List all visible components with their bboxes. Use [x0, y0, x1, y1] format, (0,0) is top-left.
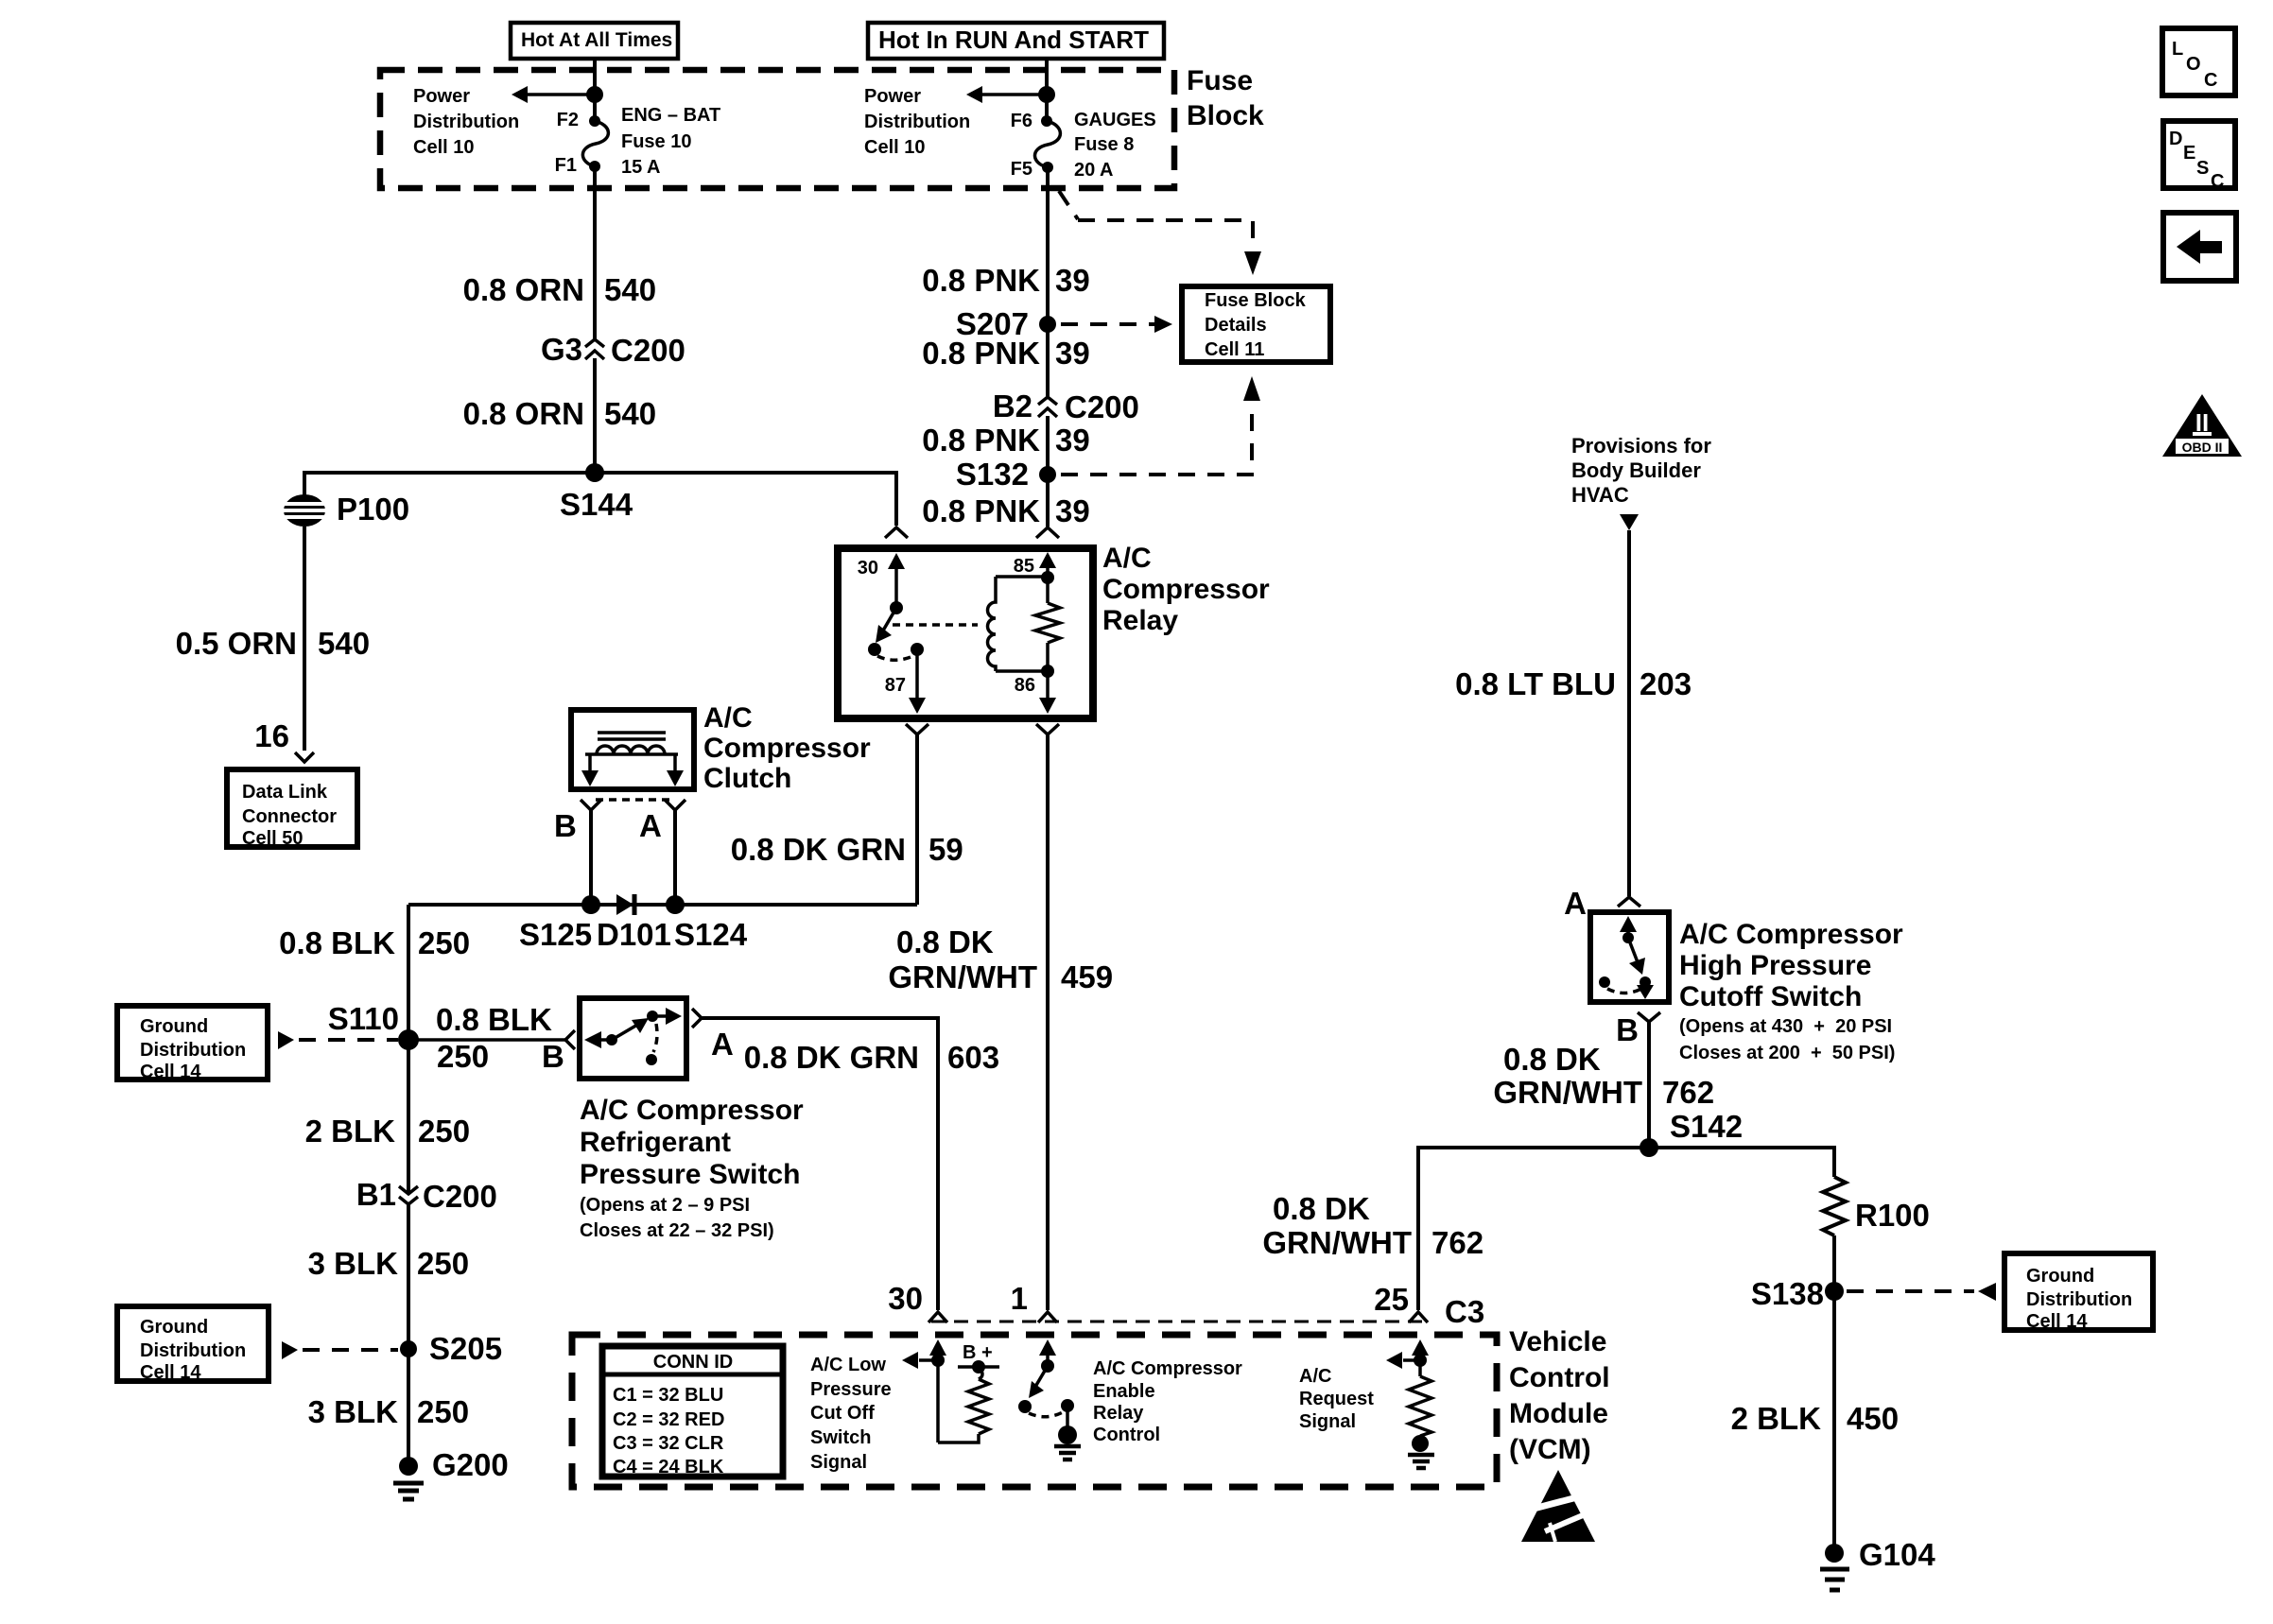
box Data Link Connector Cell 50 [227, 769, 357, 849]
svg-text:0.8 PNK: 0.8 PNK [922, 423, 1040, 458]
svg-text:Power: Power [864, 86, 921, 107]
svg-text:OBD II: OBD II [2182, 440, 2223, 455]
dashed path F5 to Fuse Block Details [1059, 191, 1261, 275]
svg-text:459: 459 [1061, 959, 1113, 994]
svg-text:Cell 14: Cell 14 [2026, 1311, 2088, 1332]
pin label A (pressure switch) [711, 1027, 734, 1062]
label 0.8 ORN 540 (upper) [463, 272, 656, 307]
svg-text:540: 540 [604, 396, 656, 431]
svg-text:85: 85 [1014, 556, 1034, 577]
relay coil top rail to pin 85 [996, 552, 1056, 584]
svg-text:Module: Module [1509, 1398, 1608, 1429]
svg-text:20 A: 20 A [1074, 160, 1114, 181]
connector B1 C200 (inline break, chevrons down) [356, 1177, 497, 1214]
VCM B+ pullup for pin 30 [938, 1342, 999, 1443]
label 3 BLK 250 (upper) [308, 1246, 469, 1281]
VCM dashed box [572, 1335, 1497, 1487]
VCM pin label 30 [888, 1281, 923, 1316]
VCM pin1 internal: enable relay driver [1018, 1339, 1074, 1429]
pin label A (clutch) [639, 808, 662, 843]
VCM pin30 internal: up arrow + left arrow [902, 1339, 946, 1443]
svg-text:0.5 ORN: 0.5 ORN [176, 626, 297, 661]
text Power Distribution Cell 10 (right) [864, 86, 970, 158]
svg-text:Closes at 22 – 32 PSI): Closes at 22 – 32 PSI) [580, 1220, 774, 1241]
node S132 [956, 457, 1056, 492]
svg-text:A/C Low: A/C Low [810, 1355, 886, 1375]
svg-text:Request: Request [1299, 1389, 1374, 1409]
relay coil bottom rail to pin 86 [996, 665, 1056, 714]
connector fork into relay pin 85 [1036, 527, 1059, 538]
pin label F6 [1011, 111, 1032, 131]
relay switch: pin30 arm with up arrow [888, 553, 905, 614]
svg-text:Fuse: Fuse [1187, 65, 1253, 96]
connector fork clutch pin A [665, 800, 685, 810]
svg-text:F1: F1 [555, 155, 577, 176]
svg-text:Hot In RUN And START: Hot In RUN And START [878, 26, 1149, 54]
fuse block dashed box [380, 70, 1174, 188]
dashed connector line C3 across VCM pins [931, 1321, 1423, 1323]
svg-text:GRN/WHT: GRN/WHT [888, 959, 1037, 994]
label 0.8 DK GRN 603 [744, 1040, 999, 1075]
relay U: A/C Compressor Relay box [838, 548, 1093, 718]
svg-text:F5: F5 [1011, 159, 1032, 180]
CONN ID table [602, 1346, 783, 1477]
svg-text:250: 250 [417, 1246, 469, 1281]
VCM label A/C Request Signal [1299, 1366, 1374, 1432]
svg-text:Cut Off: Cut Off [810, 1403, 875, 1424]
pressure switch box [580, 998, 686, 1079]
component name Vehicle Control Module (VCM) [1509, 1326, 1610, 1465]
svg-text:Fuse Block: Fuse Block [1205, 290, 1307, 311]
svg-text:0.8 ORN: 0.8 ORN [463, 396, 584, 431]
ground inside VCM (pin 1 driver) [1054, 1425, 1081, 1460]
component name "Fuse Block" [1187, 65, 1264, 131]
wire: S144 horizontal bus [304, 473, 896, 526]
wire: Hot At All Times down to F2 [593, 57, 597, 121]
DESC icon [2163, 121, 2235, 192]
wire: S138 down to G104 [1832, 1291, 1836, 1553]
svg-text:C: C [2211, 171, 2224, 192]
svg-text:F6: F6 [1011, 111, 1032, 131]
svg-text:540: 540 [604, 272, 656, 307]
svg-text:0.8 DK GRN: 0.8 DK GRN [744, 1040, 919, 1075]
svg-text:Switch: Switch [810, 1427, 871, 1448]
svg-text:B: B [542, 1039, 564, 1074]
svg-text:C200: C200 [423, 1179, 497, 1214]
svg-text:250: 250 [418, 925, 470, 960]
svg-text:S125: S125 [519, 917, 592, 952]
VCM pin25 internal: request signal [1386, 1339, 1431, 1436]
svg-text:A: A [711, 1027, 734, 1062]
label 0.8 DK GRN/WHT 762 (lower) [1262, 1191, 1484, 1260]
svg-text:0.8 LT BLU: 0.8 LT BLU [1455, 666, 1616, 701]
connector fork into relay pin 30 [885, 527, 908, 538]
connector fork at DLC pin 16 [295, 752, 314, 762]
svg-text:S110: S110 [328, 1001, 399, 1036]
svg-text:Signal: Signal [810, 1452, 867, 1473]
svg-text:C3: C3 [1445, 1294, 1484, 1329]
ground G200 [393, 1447, 509, 1499]
wire: S110 to pressure switch pin B [408, 1038, 565, 1042]
svg-text:Cell 14: Cell 14 [140, 1362, 201, 1383]
svg-text:HVAC: HVAC [1571, 483, 1629, 507]
svg-text:GAUGES: GAUGES [1074, 110, 1156, 130]
clutch box [571, 710, 694, 789]
back arrow icon [2163, 213, 2236, 281]
svg-text:Pressure Switch: Pressure Switch [580, 1159, 800, 1190]
wire: R100 down to S138 [1832, 1235, 1836, 1291]
box Fuse Block Details Cell 11 [1182, 286, 1330, 362]
svg-text:2 BLK: 2 BLK [1731, 1401, 1822, 1436]
label 0.8 PNK 39 (row 3) [922, 423, 1089, 458]
svg-text:S124: S124 [674, 917, 748, 952]
clutch feed arrows [581, 754, 684, 786]
node: junction dot right feed [1038, 86, 1055, 103]
svg-text:S: S [2196, 158, 2209, 179]
svg-text:S144: S144 [560, 487, 633, 522]
text ENG-BAT Fuse 10 15 A [621, 105, 720, 178]
svg-text:A: A [639, 808, 662, 843]
svg-text:Clutch: Clutch [703, 763, 791, 794]
svg-text:C: C [2204, 70, 2217, 91]
svg-text:0.8 PNK: 0.8 PNK [922, 493, 1040, 528]
svg-text:A/C Compressor: A/C Compressor [580, 1095, 804, 1126]
svg-text:A: A [1564, 886, 1587, 921]
svg-text:Details: Details [1205, 315, 1267, 336]
svg-text:450: 450 [1847, 1401, 1899, 1436]
svg-text:F2: F2 [557, 110, 579, 130]
diode D101 [616, 894, 634, 915]
svg-text:Fuse 8: Fuse 8 [1074, 134, 1134, 155]
label 2 BLK 450 [1731, 1401, 1899, 1436]
node S142 [1640, 1109, 1743, 1157]
label 0.8 PNK 39 (row 4) [922, 493, 1089, 528]
label 2 BLK 250 [305, 1114, 470, 1149]
pin 16 label [254, 718, 289, 753]
svg-text:Cutoff Switch: Cutoff Switch [1679, 981, 1862, 1012]
svg-text:C200: C200 [611, 333, 685, 368]
svg-text:0.8 DK: 0.8 DK [1273, 1191, 1370, 1226]
box Ground Distribution Cell 14 (upper) [117, 1006, 268, 1082]
svg-text:Ground: Ground [2026, 1266, 2094, 1287]
svg-text:S132: S132 [956, 457, 1029, 492]
svg-text:2 BLK: 2 BLK [305, 1114, 396, 1149]
wire: G3 break down to S144 [593, 358, 597, 473]
dashed arrow S110 to ground distribution [278, 1031, 398, 1049]
svg-text:Signal: Signal [1299, 1411, 1356, 1432]
relay pin label 87 [885, 675, 906, 696]
svg-text:G200: G200 [432, 1447, 509, 1482]
connector fork cutoff switch pin B [1638, 1012, 1660, 1022]
svg-text:Distribution: Distribution [413, 112, 519, 132]
svg-text:C2 = 32 RED: C2 = 32 RED [613, 1409, 724, 1430]
node S205 [400, 1331, 502, 1366]
svg-text:3 BLK: 3 BLK [308, 1394, 399, 1429]
svg-text:Connector: Connector [242, 806, 337, 827]
label 3 BLK 250 (lower) [308, 1394, 469, 1429]
dashed connector line between clutch pins [596, 798, 670, 802]
wire: S110 down to B1 break [407, 1040, 410, 1194]
pin label F5 [1011, 159, 1032, 180]
connector fork cutoff switch pin A [1618, 897, 1640, 907]
svg-text:Block: Block [1187, 100, 1264, 131]
svg-text:39: 39 [1055, 423, 1090, 458]
label 0.8 LT BLU 203 [1455, 666, 1692, 701]
svg-text:250: 250 [418, 1114, 470, 1149]
svg-text:Distribution: Distribution [140, 1040, 246, 1061]
svg-text:C1 = 32 BLU: C1 = 32 BLU [613, 1385, 723, 1406]
component name A/C Compressor Relay [1102, 543, 1270, 636]
component name A/C Compressor Clutch [703, 702, 871, 794]
text GAUGES Fuse 8 20 A [1074, 110, 1156, 181]
svg-text:O: O [2186, 54, 2201, 75]
ground G104 [1820, 1537, 1935, 1590]
svg-text:0.8 DK: 0.8 DK [1503, 1042, 1601, 1077]
svg-text:Cell 11: Cell 11 [1205, 339, 1264, 360]
wire: bus left end down to S110 [407, 905, 410, 1040]
svg-text:0.8 PNK: 0.8 PNK [922, 336, 1040, 371]
svg-text:B: B [1616, 1012, 1639, 1047]
dashed arrow S205 to ground distribution [282, 1341, 398, 1359]
fuse GAUGES Fuse 8 (S-curve) [1034, 115, 1060, 173]
node S124 [666, 895, 685, 914]
wire: pressure switch A to VCM pin 30 [702, 1018, 938, 1310]
fuse ENG-BAT Fuse 10 (S-curve) [582, 115, 608, 172]
wire: clutch A down to S124 [673, 810, 677, 905]
svg-text:A/C: A/C [703, 702, 753, 734]
wire: B1 break down to S205 [407, 1203, 410, 1349]
svg-text:Cell 50: Cell 50 [242, 828, 303, 849]
arrow to Power Distribution (right) [966, 86, 1047, 103]
pin label F1 [555, 155, 577, 176]
svg-text:Cell 10: Cell 10 [413, 137, 474, 158]
svg-text:Distribution: Distribution [2026, 1289, 2132, 1310]
wire: Hot In RUN down to F6 [1045, 57, 1049, 121]
relay switch arm (movable contact) [868, 608, 896, 656]
node S138 [1751, 1276, 1844, 1311]
relay contact to pin 87 with down arrow [909, 643, 926, 714]
VCM label A/C Compressor Enable Relay Control [1093, 1358, 1242, 1445]
label box "Hot In RUN And START" [868, 23, 1164, 59]
svg-text:D: D [2169, 129, 2182, 149]
svg-text:B: B [554, 808, 577, 843]
text Power Distribution Cell 10 (left) [413, 86, 519, 158]
LOC icon [2162, 28, 2235, 95]
svg-text:603: 603 [947, 1040, 999, 1075]
svg-text:16: 16 [254, 718, 289, 753]
connector G3 C200 (inline break, chevrons up) [541, 332, 685, 368]
svg-text:59: 59 [928, 832, 963, 867]
svg-text:A/C: A/C [1102, 543, 1152, 574]
pressure switch interior [584, 1008, 682, 1065]
label 0.8 BLK 250 (upper) [279, 925, 470, 960]
svg-text:S142: S142 [1670, 1109, 1743, 1144]
label 0.8 PNK 39 (row 2) [922, 336, 1089, 371]
connector fork VCM pin 1 [1038, 1312, 1057, 1322]
svg-text:Data Link: Data Link [242, 782, 328, 803]
svg-text:(VCM): (VCM) [1509, 1434, 1591, 1465]
svg-text:Pressure: Pressure [810, 1379, 892, 1400]
labels S125 D101 S124 [519, 917, 748, 952]
svg-text:Distribution: Distribution [140, 1340, 246, 1361]
arrow to Power Distribution (left) [512, 86, 595, 103]
connector B2 C200 (inline break, chevrons up) [993, 389, 1139, 424]
node S207 [956, 306, 1056, 341]
svg-text:S138: S138 [1751, 1276, 1824, 1311]
wire: clutch bus (S125 D101 S124) [408, 903, 917, 907]
svg-text:G104: G104 [1859, 1537, 1935, 1572]
svg-text:Relay: Relay [1093, 1403, 1144, 1424]
clutch plates [598, 733, 666, 739]
svg-text:39: 39 [1055, 336, 1090, 371]
wire: S132 down to relay pin 85 [1046, 475, 1050, 527]
svg-text:30: 30 [888, 1281, 923, 1316]
node: junction dot left feed [586, 86, 603, 103]
svg-text:Body Builder: Body Builder [1571, 458, 1701, 482]
text Provisions for Body Builder HVAC [1571, 434, 1711, 507]
relay resistor (parallel) [1035, 578, 1060, 671]
svg-text:25: 25 [1374, 1282, 1409, 1317]
svg-text:30: 30 [858, 558, 878, 579]
wire: S205 down to G200 [407, 1349, 410, 1466]
wire: S207 down to B2 break [1046, 324, 1050, 397]
node S144 [560, 463, 633, 522]
svg-text:P100: P100 [337, 492, 409, 527]
wire: B2 break down to S132 [1046, 416, 1050, 475]
wire: cutoff B down to S142 [1647, 1022, 1651, 1148]
pin label B (cutoff switch) [1616, 1012, 1639, 1047]
svg-text:203: 203 [1640, 666, 1692, 701]
svg-text:Relay: Relay [1102, 605, 1178, 636]
label 0.8 DK GRN/WHT 459 [888, 924, 1113, 994]
wire: F1 down to G3 break [593, 166, 597, 340]
VCM label A/C Low Pressure Cut Off Switch Signal [810, 1355, 892, 1473]
svg-text:0.8 BLK: 0.8 BLK [436, 1002, 552, 1037]
svg-text:B2: B2 [993, 389, 1032, 423]
pin label A (cutoff switch) [1564, 886, 1587, 921]
connector fork pressure switch pin B [565, 1030, 575, 1049]
component name A/C Compressor Refrigerant Pressure Switch [580, 1095, 804, 1241]
svg-text:Cell 14: Cell 14 [140, 1062, 201, 1082]
svg-text:0.8 BLK: 0.8 BLK [279, 925, 395, 960]
svg-text:Control: Control [1093, 1425, 1160, 1445]
svg-text:Enable: Enable [1093, 1381, 1155, 1402]
label 0.8 BLK 250 (switch feed) [436, 1002, 552, 1074]
relay dashed actuator link [893, 623, 978, 627]
svg-text:C200: C200 [1065, 389, 1139, 424]
svg-text:Hot At All Times: Hot At All Times [521, 29, 672, 51]
component name A/C Compressor High Pressure Cutoff Switch [1679, 919, 1903, 1063]
box Ground Distribution Cell 14 (lower) [117, 1306, 269, 1383]
svg-text:Closes at 200 + 50 PSI): Closes at 200 + 50 PSI) [1679, 1043, 1895, 1063]
label 0.8 DK GRN 59 [731, 832, 963, 867]
svg-text:E: E [2183, 143, 2195, 164]
label 0.5 ORN 540 [176, 626, 370, 661]
relay pin label 86 [1015, 675, 1035, 696]
svg-text:1: 1 [1011, 1281, 1028, 1316]
connector fork VCM pin 30 [928, 1312, 947, 1322]
pin label B (pressure switch) [542, 1039, 564, 1074]
cutoff switch interior [1599, 916, 1654, 999]
svg-text:GRN/WHT: GRN/WHT [1493, 1075, 1642, 1110]
svg-text:CONN ID: CONN ID [653, 1352, 733, 1373]
label 0.8 ORN 540 (lower) [463, 396, 656, 431]
svg-text:Cell 10: Cell 10 [864, 137, 925, 158]
svg-text:B1: B1 [356, 1177, 396, 1212]
svg-text:G3: G3 [541, 332, 582, 367]
wire: P100 down to DLC [303, 527, 306, 751]
connector fork clutch pin B [581, 800, 601, 810]
clutch coil [585, 746, 678, 754]
svg-text:0.8 ORN: 0.8 ORN [463, 272, 584, 307]
wire: F5 down to S207 [1046, 167, 1050, 324]
svg-text:Compressor: Compressor [703, 733, 871, 764]
svg-text:Power: Power [413, 86, 470, 107]
svg-text:High Pressure: High Pressure [1679, 950, 1871, 981]
svg-text:(Opens at 2 – 9 PSI: (Opens at 2 – 9 PSI [580, 1195, 750, 1216]
OBD II symbol [2162, 394, 2242, 457]
ESD sensitive symbol [1521, 1470, 1595, 1542]
svg-text:0.8 DK GRN: 0.8 DK GRN [731, 832, 906, 867]
svg-text:0.8 PNK: 0.8 PNK [922, 263, 1040, 298]
svg-text:A/C Compressor: A/C Compressor [1679, 919, 1903, 950]
svg-text:87: 87 [885, 675, 906, 696]
svg-text:39: 39 [1055, 493, 1090, 528]
connector fork below relay pin 86 [1036, 724, 1059, 734]
dashed arrow S207 to Fuse Block Details [1061, 316, 1172, 333]
svg-text:39: 39 [1055, 263, 1090, 298]
relay coil [988, 577, 997, 671]
svg-text:250: 250 [437, 1039, 489, 1074]
svg-text:ENG – BAT: ENG – BAT [621, 105, 720, 126]
VCM pin label 1 [1011, 1281, 1028, 1316]
VCM pin label C3 [1445, 1294, 1484, 1329]
node S110 [328, 1001, 419, 1050]
svg-text:250: 250 [417, 1394, 469, 1429]
ground inside VCM (pin 25) [1408, 1435, 1434, 1468]
svg-text:GRN/WHT: GRN/WHT [1262, 1225, 1412, 1260]
label 0.8 DK GRN/WHT 762 (upper) [1493, 1042, 1714, 1110]
svg-text:15 A: 15 A [621, 157, 661, 178]
svg-text:Provisions for: Provisions for [1571, 434, 1711, 458]
svg-text:762: 762 [1662, 1075, 1714, 1110]
relay pin label 85 [1014, 556, 1034, 577]
VCM pin label 25 [1374, 1282, 1409, 1317]
connector fork pressure switch pin A [692, 1009, 702, 1028]
svg-text:L: L [2172, 39, 2183, 60]
cutoff switch box [1590, 912, 1669, 1002]
svg-text:(Opens at 430 + 20 PSI: (Opens at 430 + 20 PSI [1679, 1016, 1892, 1037]
dashed arrow S138 to ground distribution [1847, 1283, 1996, 1301]
svg-text:3 BLK: 3 BLK [308, 1246, 399, 1281]
svg-text:Refrigerant: Refrigerant [580, 1127, 731, 1158]
svg-text:C3 = 32 CLR: C3 = 32 CLR [613, 1433, 724, 1454]
pin label B (clutch) [554, 808, 577, 843]
svg-text:A/C Compressor: A/C Compressor [1093, 1358, 1242, 1379]
svg-text:86: 86 [1015, 675, 1035, 696]
wire: clutch B down to S125 [589, 810, 593, 905]
svg-text:Compressor: Compressor [1102, 574, 1270, 605]
relay switch dashed throw arc [877, 655, 915, 660]
svg-text:Distribution: Distribution [864, 112, 970, 132]
label 0.8 PNK 39 (row 1) [922, 263, 1089, 298]
connector fork below relay pin 87 [906, 724, 928, 734]
dashed path S132 to Fuse Block Details [1061, 376, 1260, 475]
svg-text:762: 762 [1431, 1225, 1484, 1260]
wire: HVAC down to cutoff switch pin A [1627, 530, 1631, 896]
svg-text:Vehicle: Vehicle [1509, 1326, 1606, 1357]
resistor R100 [1823, 1177, 1930, 1235]
